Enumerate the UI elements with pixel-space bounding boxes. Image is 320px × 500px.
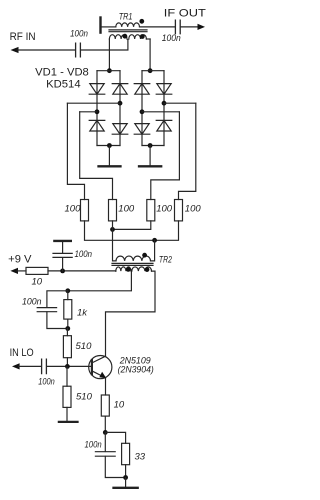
- svg-text:VD1 - VD8: VD1 - VD8: [35, 66, 89, 78]
- terminal arrow +9 V: [10, 268, 18, 274]
- wire quad1 B to R2: [80, 112, 113, 200]
- svg-text:IN LO: IN LO: [10, 347, 34, 359]
- ground (above C4): [54, 240, 70, 242]
- wire 33 to ground node: [125, 465, 127, 478]
- wire quad1 bottom rail: [97, 145, 120, 147]
- svg-text:100: 100: [65, 203, 82, 214]
- wire C1 to TR1 secondary center tap: [81, 40, 128, 50]
- diode VD7: [134, 124, 150, 135]
- diode VD5: [134, 84, 150, 95]
- svg-text:100: 100: [118, 203, 135, 214]
- polarity dot TR1 secondary left: [123, 34, 128, 39]
- transformer TR1 primary winding: [116, 23, 140, 27]
- transformer TR2 bottom right winding: [132, 267, 152, 271]
- wire emitter node to C6: [104, 432, 106, 451]
- wire TR1 secondary right to quad2 top: [149, 39, 151, 71]
- svg-text:100n: 100n: [22, 296, 42, 307]
- svg-text:TR1: TR1: [119, 11, 133, 22]
- ground (510 lower): [59, 421, 78, 423]
- svg-text:100: 100: [185, 203, 202, 214]
- wire quad2 right branch: [163, 71, 165, 146]
- wire quad1 left branch: [96, 71, 98, 146]
- wire C2 to IF OUT: [181, 26, 198, 28]
- wire 1k to node B: [67, 319, 69, 328]
- node base: [65, 364, 70, 369]
- wire quad1 right mid line A: [67, 102, 120, 104]
- transformer TR2 top winding: [116, 256, 151, 261]
- wire TR1 secondary right end jog: [146, 38, 150, 40]
- wire IN LO to C3: [19, 365, 42, 367]
- node quad1 top: [107, 68, 112, 73]
- svg-text:1k: 1k: [77, 308, 88, 319]
- wire node to ground: [125, 478, 127, 487]
- svg-text:KD514: KD514: [46, 79, 81, 91]
- wire C6 bottom to ground node: [105, 456, 125, 477]
- transformer TR1 secondary left winding: [109, 35, 127, 39]
- svg-text:100n: 100n: [85, 440, 102, 451]
- wire quad2 top rail: [142, 70, 164, 72]
- wire TR2 bottom mid junction to bias node: [68, 271, 132, 291]
- node emitter: [103, 430, 108, 435]
- terminal arrow RF IN: [11, 47, 19, 53]
- svg-text:100n: 100n: [162, 33, 181, 44]
- polarity dot TR1 primary: [139, 19, 144, 24]
- capacitor C5 100n (bias bypass): [37, 308, 56, 312]
- wire quad1 left mid line B: [80, 111, 97, 113]
- wire TR1 primary to C2: [140, 26, 176, 28]
- ground (quad2): [139, 165, 161, 167]
- wire TR1 secondary left to quad1 top: [108, 39, 110, 71]
- wire R2 bottom to TR2 top winding left: [113, 221, 117, 261]
- wire C5 bottom to node B: [47, 312, 68, 329]
- svg-text:IF OUT: IF OUT: [164, 8, 206, 20]
- wire +9V to R10: [17, 270, 26, 272]
- wire bias node to C5 top: [47, 291, 68, 308]
- wire quad2 right mid to R4: [179, 103, 196, 199]
- svg-text:33: 33: [135, 452, 146, 463]
- wire quad1 top rail: [97, 70, 120, 72]
- wire 510 lower to ground: [66, 407, 68, 420]
- wire node to TR2 top winding right: [151, 240, 155, 261]
- node supply/C4: [60, 269, 65, 274]
- transformer TR2 bottom left winding: [116, 267, 131, 271]
- wire bias A to 1k: [67, 291, 69, 300]
- svg-text:510: 510: [76, 341, 93, 352]
- wire RF IN to C1: [17, 49, 75, 51]
- wire node B to 510: [66, 329, 68, 336]
- capacitor C4 100n (supply bypass): [53, 242, 72, 271]
- resistor R3 100: [147, 200, 155, 221]
- node line2 to TR2: [152, 238, 157, 243]
- svg-text:100: 100: [156, 203, 173, 214]
- svg-text:TR2: TR2: [159, 255, 173, 266]
- resistor 510 (upper): [63, 336, 71, 358]
- diode VD6: [156, 84, 172, 95]
- resistor 10 (emitter): [101, 395, 109, 416]
- ground (output): [114, 487, 138, 489]
- resistor 33: [122, 443, 130, 464]
- node output ground: [123, 475, 128, 480]
- wire quad2 bottom to ground: [149, 146, 151, 166]
- node quad1 bottom: [107, 143, 112, 148]
- resistor R4 100: [175, 200, 183, 221]
- transformer TR1 core: [109, 30, 147, 32]
- svg-text:100n: 100n: [75, 249, 93, 260]
- node quad2 bottom: [148, 143, 153, 148]
- wire quad1 bottom to ground: [108, 146, 110, 166]
- wire quad2 left branch: [141, 71, 143, 146]
- wire 510 to base node: [66, 358, 68, 367]
- node quad2 top: [148, 68, 153, 73]
- svg-text:RF IN: RF IN: [10, 31, 36, 43]
- terminal arrow IF OUT: [198, 24, 206, 30]
- wire quad2 left mid to R3: [151, 112, 180, 200]
- svg-text:100n: 100n: [38, 377, 55, 388]
- polarity dot TR1 secondary right: [140, 34, 145, 39]
- diode VD2: [112, 84, 128, 95]
- node bias B: [65, 326, 70, 331]
- diode VD4: [112, 124, 128, 135]
- node bias A: [65, 288, 70, 293]
- wire emitter R to node: [104, 416, 106, 432]
- wire R3 bottom to R2 line: [113, 221, 151, 230]
- svg-text:100n: 100n: [70, 28, 88, 39]
- ground (quad1): [99, 165, 121, 167]
- capacitor C1 100n (RF input): [76, 43, 81, 57]
- wire quad1 A to R1: [67, 103, 84, 199]
- wire quad2 left mid line: [142, 111, 179, 113]
- wire terminal to TR1 primary: [102, 26, 116, 28]
- resistor 10 (supply): [26, 267, 48, 274]
- transformer TR2 core: [112, 263, 153, 265]
- capacitor C6 100n (emitter bypass): [95, 452, 115, 457]
- diode VD1: [89, 84, 105, 95]
- polarity dot TR2 bottom left: [126, 267, 131, 272]
- wire quad2 right mid line: [164, 102, 196, 104]
- node quad2 left mid: [140, 109, 145, 114]
- capacitor C3 100n (LO input): [42, 359, 47, 373]
- wire C3 to base: [47, 365, 91, 367]
- wire TR2 bottom right to collector: [106, 271, 156, 356]
- node quad2 right mid: [162, 101, 167, 106]
- terminal bar (TR1 primary left end): [99, 18, 101, 33]
- wire emitter node to R33: [105, 432, 125, 443]
- wire supply rail to TR2: [48, 270, 116, 272]
- resistor 1k: [64, 300, 72, 320]
- node R2/R3 junction: [110, 227, 115, 232]
- svg-text:+9 V: +9 V: [8, 253, 32, 265]
- node quad1 right mid: [118, 101, 123, 106]
- resistor 510 (lower): [63, 386, 71, 407]
- node quad1 left mid: [95, 109, 100, 114]
- wire base node to 510 lower: [66, 366, 68, 386]
- transistor Q1 2N5109: [89, 356, 112, 379]
- svg-text:10: 10: [114, 400, 125, 411]
- wire emitter down: [105, 378, 107, 395]
- polarity dot TR2 top: [142, 253, 147, 258]
- svg-text:510: 510: [76, 392, 93, 403]
- polarity dot TR2 bottom right: [145, 267, 150, 272]
- wire R1 bottom to line2: [85, 221, 179, 240]
- resistor R1 100: [81, 200, 89, 221]
- wire quad2 bottom rail: [142, 145, 164, 147]
- diode VD8: [156, 120, 172, 131]
- capacitor C2 100n (IF output): [175, 20, 180, 34]
- svg-text:(2N3904): (2N3904): [118, 365, 154, 376]
- diode VD3: [89, 120, 105, 131]
- terminal arrow IN LO: [12, 363, 20, 369]
- svg-text:10: 10: [32, 277, 43, 288]
- resistor R2 100: [109, 200, 117, 221]
- wire quad1 right branch: [119, 71, 121, 146]
- transformer TR1 secondary right winding: [129, 35, 147, 39]
